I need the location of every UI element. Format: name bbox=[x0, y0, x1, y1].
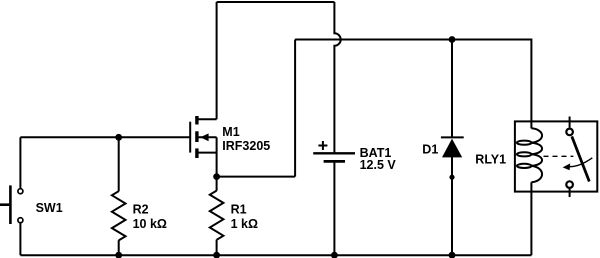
node: junction dot gate/R2 bbox=[115, 134, 122, 141]
wire: RLY1 coil bottom lead bbox=[530, 182, 532, 255]
svg-text:1 kΩ: 1 kΩ bbox=[231, 217, 258, 231]
svg-text:D1: D1 bbox=[422, 143, 438, 157]
diode D1 bbox=[441, 137, 464, 157]
resistor R2 bbox=[112, 191, 126, 240]
transistor M1 (IRF3205 n-channel MOSFET) bbox=[190, 116, 216, 177]
svg-text:SW1: SW1 bbox=[36, 201, 63, 215]
wire: vertical from upper rail down to source wire bbox=[294, 40, 296, 177]
node: junction dot D1/ground rail bbox=[449, 252, 456, 258]
node: junction dot rail/D1 top bbox=[449, 36, 456, 43]
svg-text:10 kΩ: 10 kΩ bbox=[133, 217, 167, 231]
relay RLY1 actuation arrow bbox=[563, 158, 593, 170]
node: junction dot R2/ground rail bbox=[115, 252, 122, 258]
svg-text:R1: R1 bbox=[231, 203, 247, 217]
wire: M1 source node horizontal bbox=[217, 176, 296, 178]
svg-text:12.5 V: 12.5 V bbox=[360, 158, 397, 172]
relay RLY1 coil bbox=[517, 128, 542, 182]
resistor R1 bbox=[210, 191, 224, 240]
node: junction dot source/R1 bbox=[213, 173, 220, 180]
battery BAT1 bbox=[313, 141, 355, 161]
wire: D1 top lead bbox=[451, 40, 453, 138]
wire: BAT1 top vertical with hop over rail bbox=[334, 2, 340, 153]
node: junction dot R1/ground rail bbox=[213, 252, 220, 258]
relay RLY1 box bbox=[515, 121, 597, 191]
wire: R1 top lead bbox=[216, 177, 218, 191]
svg-text:M1: M1 bbox=[222, 125, 239, 139]
wire: SW1 top lead bbox=[19, 137, 21, 188]
wire: gate wire from SW1 to M1 gate bbox=[20, 136, 190, 138]
relay RLY1 switch contacts bbox=[566, 117, 589, 198]
wire: R2 bottom lead bbox=[118, 240, 120, 255]
wire: top horizontal from M1 drain to BAT1 positive branch bbox=[217, 1, 335, 3]
relay RLY1 dashed actuation line bbox=[544, 155, 574, 157]
svg-text:R2: R2 bbox=[133, 203, 149, 217]
wire: bottom ground rail bbox=[20, 254, 531, 256]
wire: upper rail from node to RLY1 coil top bbox=[295, 40, 531, 129]
wire: BAT1 bottom lead bbox=[333, 161, 335, 255]
wire: R1 bottom lead bbox=[216, 240, 218, 256]
wire: R2 top lead bbox=[118, 137, 120, 191]
node: junction dot BAT1/ground rail bbox=[331, 252, 338, 258]
node: small dot on D1 anode lead bbox=[449, 175, 454, 180]
wire: SW1 bottom lead bbox=[19, 223, 21, 255]
svg-text:IRF3205: IRF3205 bbox=[222, 139, 270, 153]
wire: D1 bottom lead bbox=[451, 157, 453, 256]
switch SW1 bbox=[0, 185, 23, 224]
svg-text:RLY1: RLY1 bbox=[475, 153, 506, 167]
wire: M1 drain vertical bbox=[216, 2, 218, 119]
